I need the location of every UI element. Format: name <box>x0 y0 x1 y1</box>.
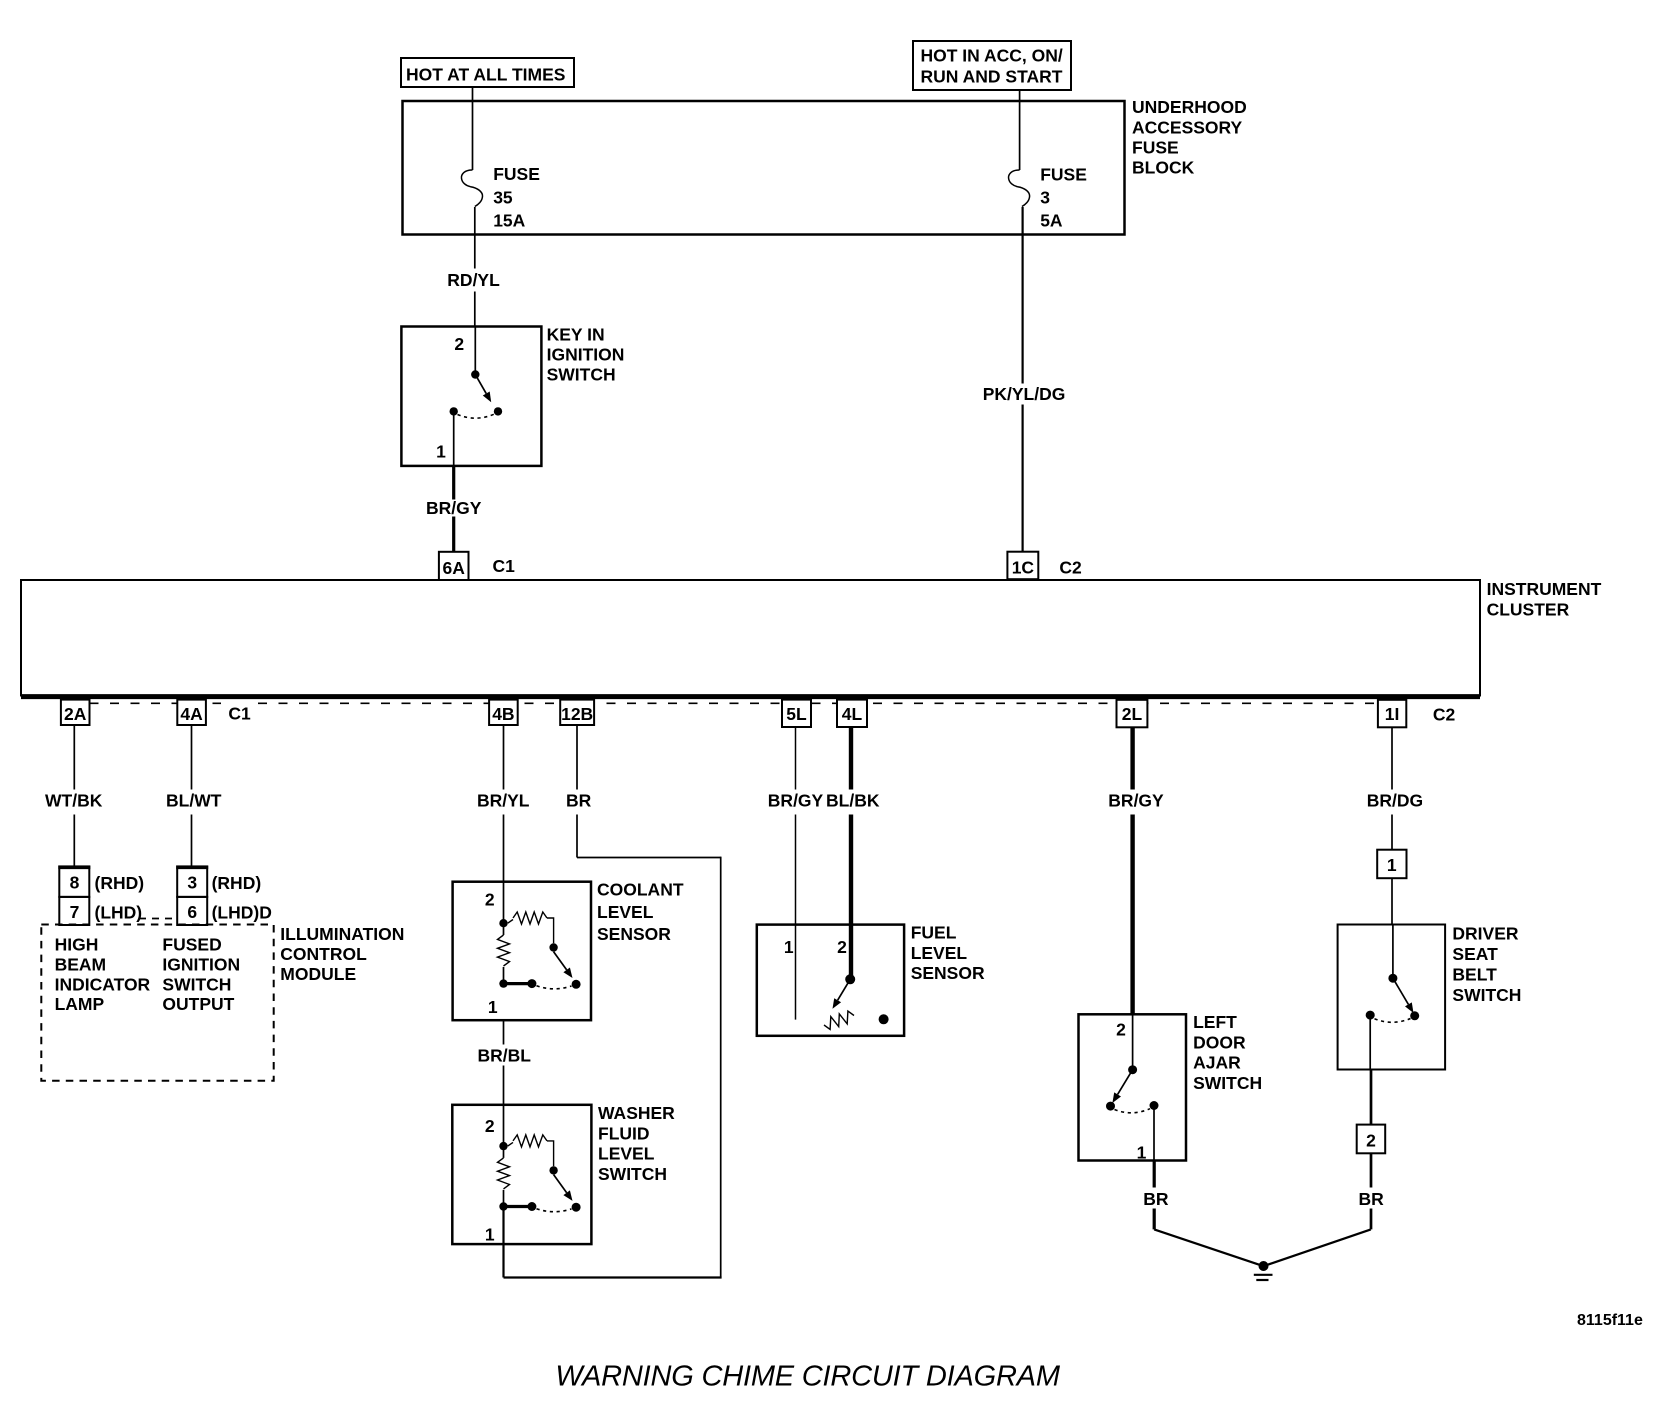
svg-text:BR: BR <box>1359 1189 1385 1209</box>
svg-text:LEVEL: LEVEL <box>911 943 968 963</box>
svg-text:12B: 12B <box>561 704 593 724</box>
svg-text:DRIVER: DRIVER <box>1452 924 1518 944</box>
svg-text:RD/YL: RD/YL <box>447 270 500 290</box>
svg-text:6A: 6A <box>443 558 466 578</box>
svg-text:LAMP: LAMP <box>55 994 105 1014</box>
svg-text:3: 3 <box>187 873 197 893</box>
svg-text:5L: 5L <box>786 704 807 724</box>
svg-text:UNDERHOOD: UNDERHOOD <box>1132 97 1247 117</box>
svg-text:BR/YL: BR/YL <box>477 791 530 811</box>
svg-text:C1: C1 <box>493 556 516 576</box>
svg-text:SENSOR: SENSOR <box>597 924 671 944</box>
svg-text:BR/GY: BR/GY <box>768 791 824 811</box>
svg-text:3: 3 <box>1040 188 1050 208</box>
svg-text:(RHD): (RHD) <box>95 873 145 893</box>
svg-text:1: 1 <box>1137 1142 1147 1162</box>
svg-text:FUSE: FUSE <box>493 164 540 184</box>
svg-text:1: 1 <box>488 997 498 1017</box>
svg-text:BELT: BELT <box>1452 964 1497 984</box>
svg-text:IGNITION: IGNITION <box>162 954 240 974</box>
svg-text:RUN AND START: RUN AND START <box>921 67 1063 87</box>
svg-text:BR/DG: BR/DG <box>1367 791 1423 811</box>
svg-text:C2: C2 <box>1059 558 1082 578</box>
svg-text:8: 8 <box>70 873 80 893</box>
svg-text:LEVEL: LEVEL <box>598 1144 655 1164</box>
svg-text:2: 2 <box>454 334 464 354</box>
svg-text:LEVEL: LEVEL <box>597 902 654 922</box>
svg-text:2L: 2L <box>1122 704 1143 724</box>
svg-text:FUSED: FUSED <box>162 935 221 955</box>
svg-text:SWITCH: SWITCH <box>1193 1073 1262 1093</box>
svg-text:1: 1 <box>1387 855 1397 875</box>
svg-text:INDICATOR: INDICATOR <box>55 974 151 994</box>
svg-text:2: 2 <box>1116 1020 1126 1040</box>
svg-text:HOT IN ACC, ON/: HOT IN ACC, ON/ <box>921 46 1063 66</box>
svg-text:1C: 1C <box>1012 558 1035 578</box>
svg-text:35: 35 <box>493 187 513 207</box>
svg-text:CLUSTER: CLUSTER <box>1487 599 1570 619</box>
svg-text:HOT AT ALL TIMES: HOT AT ALL TIMES <box>406 65 565 85</box>
svg-text:SWITCH: SWITCH <box>162 974 231 994</box>
svg-text:1I: 1I <box>1385 704 1400 724</box>
svg-text:4B: 4B <box>492 704 514 724</box>
svg-text:SWITCH: SWITCH <box>1452 985 1521 1005</box>
svg-text:WASHER: WASHER <box>598 1103 675 1123</box>
svg-text:2: 2 <box>485 1116 495 1136</box>
svg-text:BR/GY: BR/GY <box>426 498 482 518</box>
svg-text:(LHD): (LHD) <box>95 902 143 922</box>
svg-text:ILLUMINATION: ILLUMINATION <box>280 924 404 944</box>
svg-text:BEAM: BEAM <box>55 954 107 974</box>
svg-text:FLUID: FLUID <box>598 1123 650 1143</box>
svg-text:BL/WT: BL/WT <box>166 791 222 811</box>
svg-text:BR: BR <box>566 791 592 811</box>
svg-text:2: 2 <box>1366 1130 1376 1150</box>
svg-text:COOLANT: COOLANT <box>597 880 684 900</box>
svg-text:(RHD): (RHD) <box>212 873 262 893</box>
svg-text:C2: C2 <box>1433 705 1456 725</box>
svg-text:FUSE: FUSE <box>1040 165 1087 185</box>
svg-text:SWITCH: SWITCH <box>547 365 616 385</box>
svg-text:4A: 4A <box>180 704 203 724</box>
svg-text:6: 6 <box>187 902 197 922</box>
svg-text:AJAR: AJAR <box>1193 1053 1241 1073</box>
svg-text:PK/YL/DG: PK/YL/DG <box>983 384 1066 404</box>
svg-text:DOOR: DOOR <box>1193 1032 1246 1052</box>
svg-text:1: 1 <box>485 1224 495 1244</box>
svg-text:(LHD)D: (LHD)D <box>212 902 272 922</box>
svg-text:2: 2 <box>485 890 495 910</box>
svg-text:2: 2 <box>837 937 847 957</box>
svg-text:LEFT: LEFT <box>1193 1012 1237 1032</box>
svg-text:4L: 4L <box>842 704 863 724</box>
svg-text:BLOCK: BLOCK <box>1132 158 1195 178</box>
svg-text:C1: C1 <box>228 703 251 723</box>
svg-text:HIGH: HIGH <box>55 935 99 955</box>
svg-text:SENSOR: SENSOR <box>911 963 985 983</box>
svg-text:MODULE: MODULE <box>280 964 356 984</box>
svg-text:SWITCH: SWITCH <box>598 1164 667 1184</box>
svg-text:1: 1 <box>436 442 446 462</box>
svg-text:7: 7 <box>70 902 80 922</box>
svg-text:2A: 2A <box>64 704 87 724</box>
svg-text:SEAT: SEAT <box>1452 944 1498 964</box>
svg-text:BL/BK: BL/BK <box>826 791 880 811</box>
svg-text:BR: BR <box>1143 1189 1169 1209</box>
svg-text:FUSE: FUSE <box>1132 137 1179 157</box>
svg-text:BR/GY: BR/GY <box>1108 791 1164 811</box>
svg-text:INSTRUMENT: INSTRUMENT <box>1487 579 1602 599</box>
svg-text:IGNITION: IGNITION <box>547 344 625 364</box>
svg-text:ACCESSORY: ACCESSORY <box>1132 117 1243 137</box>
svg-text:5A: 5A <box>1040 211 1063 231</box>
svg-text:WARNING CHIME CIRCUIT DIAGRAM: WARNING CHIME CIRCUIT DIAGRAM <box>555 1360 1060 1392</box>
svg-text:KEY IN: KEY IN <box>547 324 605 344</box>
svg-text:BR/BL: BR/BL <box>478 1046 532 1066</box>
svg-text:8115f11e: 8115f11e <box>1577 1312 1643 1329</box>
svg-text:CONTROL: CONTROL <box>280 944 367 964</box>
svg-text:FUEL: FUEL <box>911 922 957 942</box>
svg-text:1: 1 <box>784 937 794 957</box>
svg-text:OUTPUT: OUTPUT <box>162 994 234 1014</box>
svg-text:15A: 15A <box>493 211 525 231</box>
svg-text:WT/BK: WT/BK <box>45 791 103 811</box>
